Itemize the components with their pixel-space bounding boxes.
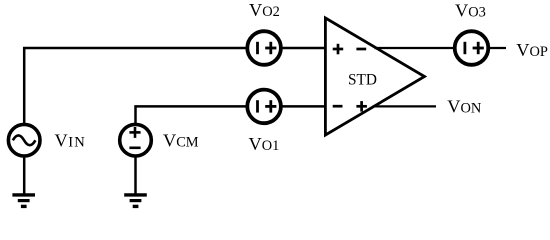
pin + (top input) bbox=[333, 44, 344, 55]
wire bbox=[282, 47, 327, 50]
AC source VIN bbox=[8, 124, 40, 156]
svg-text:VIN: VIN bbox=[55, 130, 86, 150]
wire bbox=[23, 156, 26, 194]
wire bbox=[134, 156, 137, 194]
op-amp U1 fully-differential bbox=[325, 18, 424, 135]
wire bbox=[373, 105, 437, 107]
label VOP bbox=[516, 40, 548, 60]
label VIN bbox=[55, 130, 86, 150]
wire bbox=[24, 48, 247, 124]
svg-text:STD: STD bbox=[348, 72, 377, 89]
ground bbox=[12, 195, 35, 207]
voltage source VO3 bbox=[455, 31, 489, 65]
wire bbox=[282, 105, 327, 108]
svg-text:VON: VON bbox=[447, 97, 482, 117]
voltage source VO2 bbox=[247, 31, 281, 65]
pin - (top output polarity) bbox=[356, 48, 366, 51]
label VO3 bbox=[455, 0, 486, 20]
label STD bbox=[348, 72, 377, 89]
label VCM bbox=[163, 130, 199, 150]
svg-text:VO1: VO1 bbox=[249, 134, 280, 154]
wire bbox=[489, 47, 507, 49]
wire bbox=[375, 47, 455, 49]
svg-text:VO3: VO3 bbox=[455, 0, 486, 20]
wire bbox=[136, 106, 248, 124]
pin + (bottom output polarity) bbox=[356, 101, 367, 112]
pin - (bottom input) bbox=[333, 105, 343, 108]
label VO2 bbox=[249, 0, 280, 20]
label VO1 bbox=[249, 134, 280, 154]
svg-text:VO2: VO2 bbox=[249, 0, 280, 20]
label VON bbox=[447, 97, 482, 117]
ground bbox=[124, 195, 147, 207]
svg-text:VOP: VOP bbox=[516, 40, 548, 60]
voltage source VO1 bbox=[247, 90, 281, 124]
svg-text:VCM: VCM bbox=[163, 130, 199, 150]
DC source VCM bbox=[120, 124, 152, 156]
